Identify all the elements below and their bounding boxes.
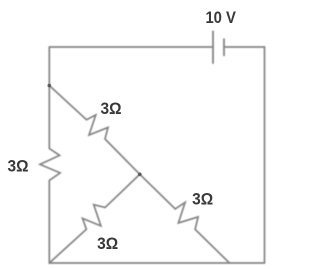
svg-text:3Ω: 3Ω [192, 190, 213, 209]
svg-text:3Ω: 3Ω [101, 99, 122, 118]
svg-text:10 V: 10 V [205, 8, 236, 27]
svg-text:3Ω: 3Ω [97, 234, 118, 253]
svg-text:3Ω: 3Ω [8, 156, 29, 175]
